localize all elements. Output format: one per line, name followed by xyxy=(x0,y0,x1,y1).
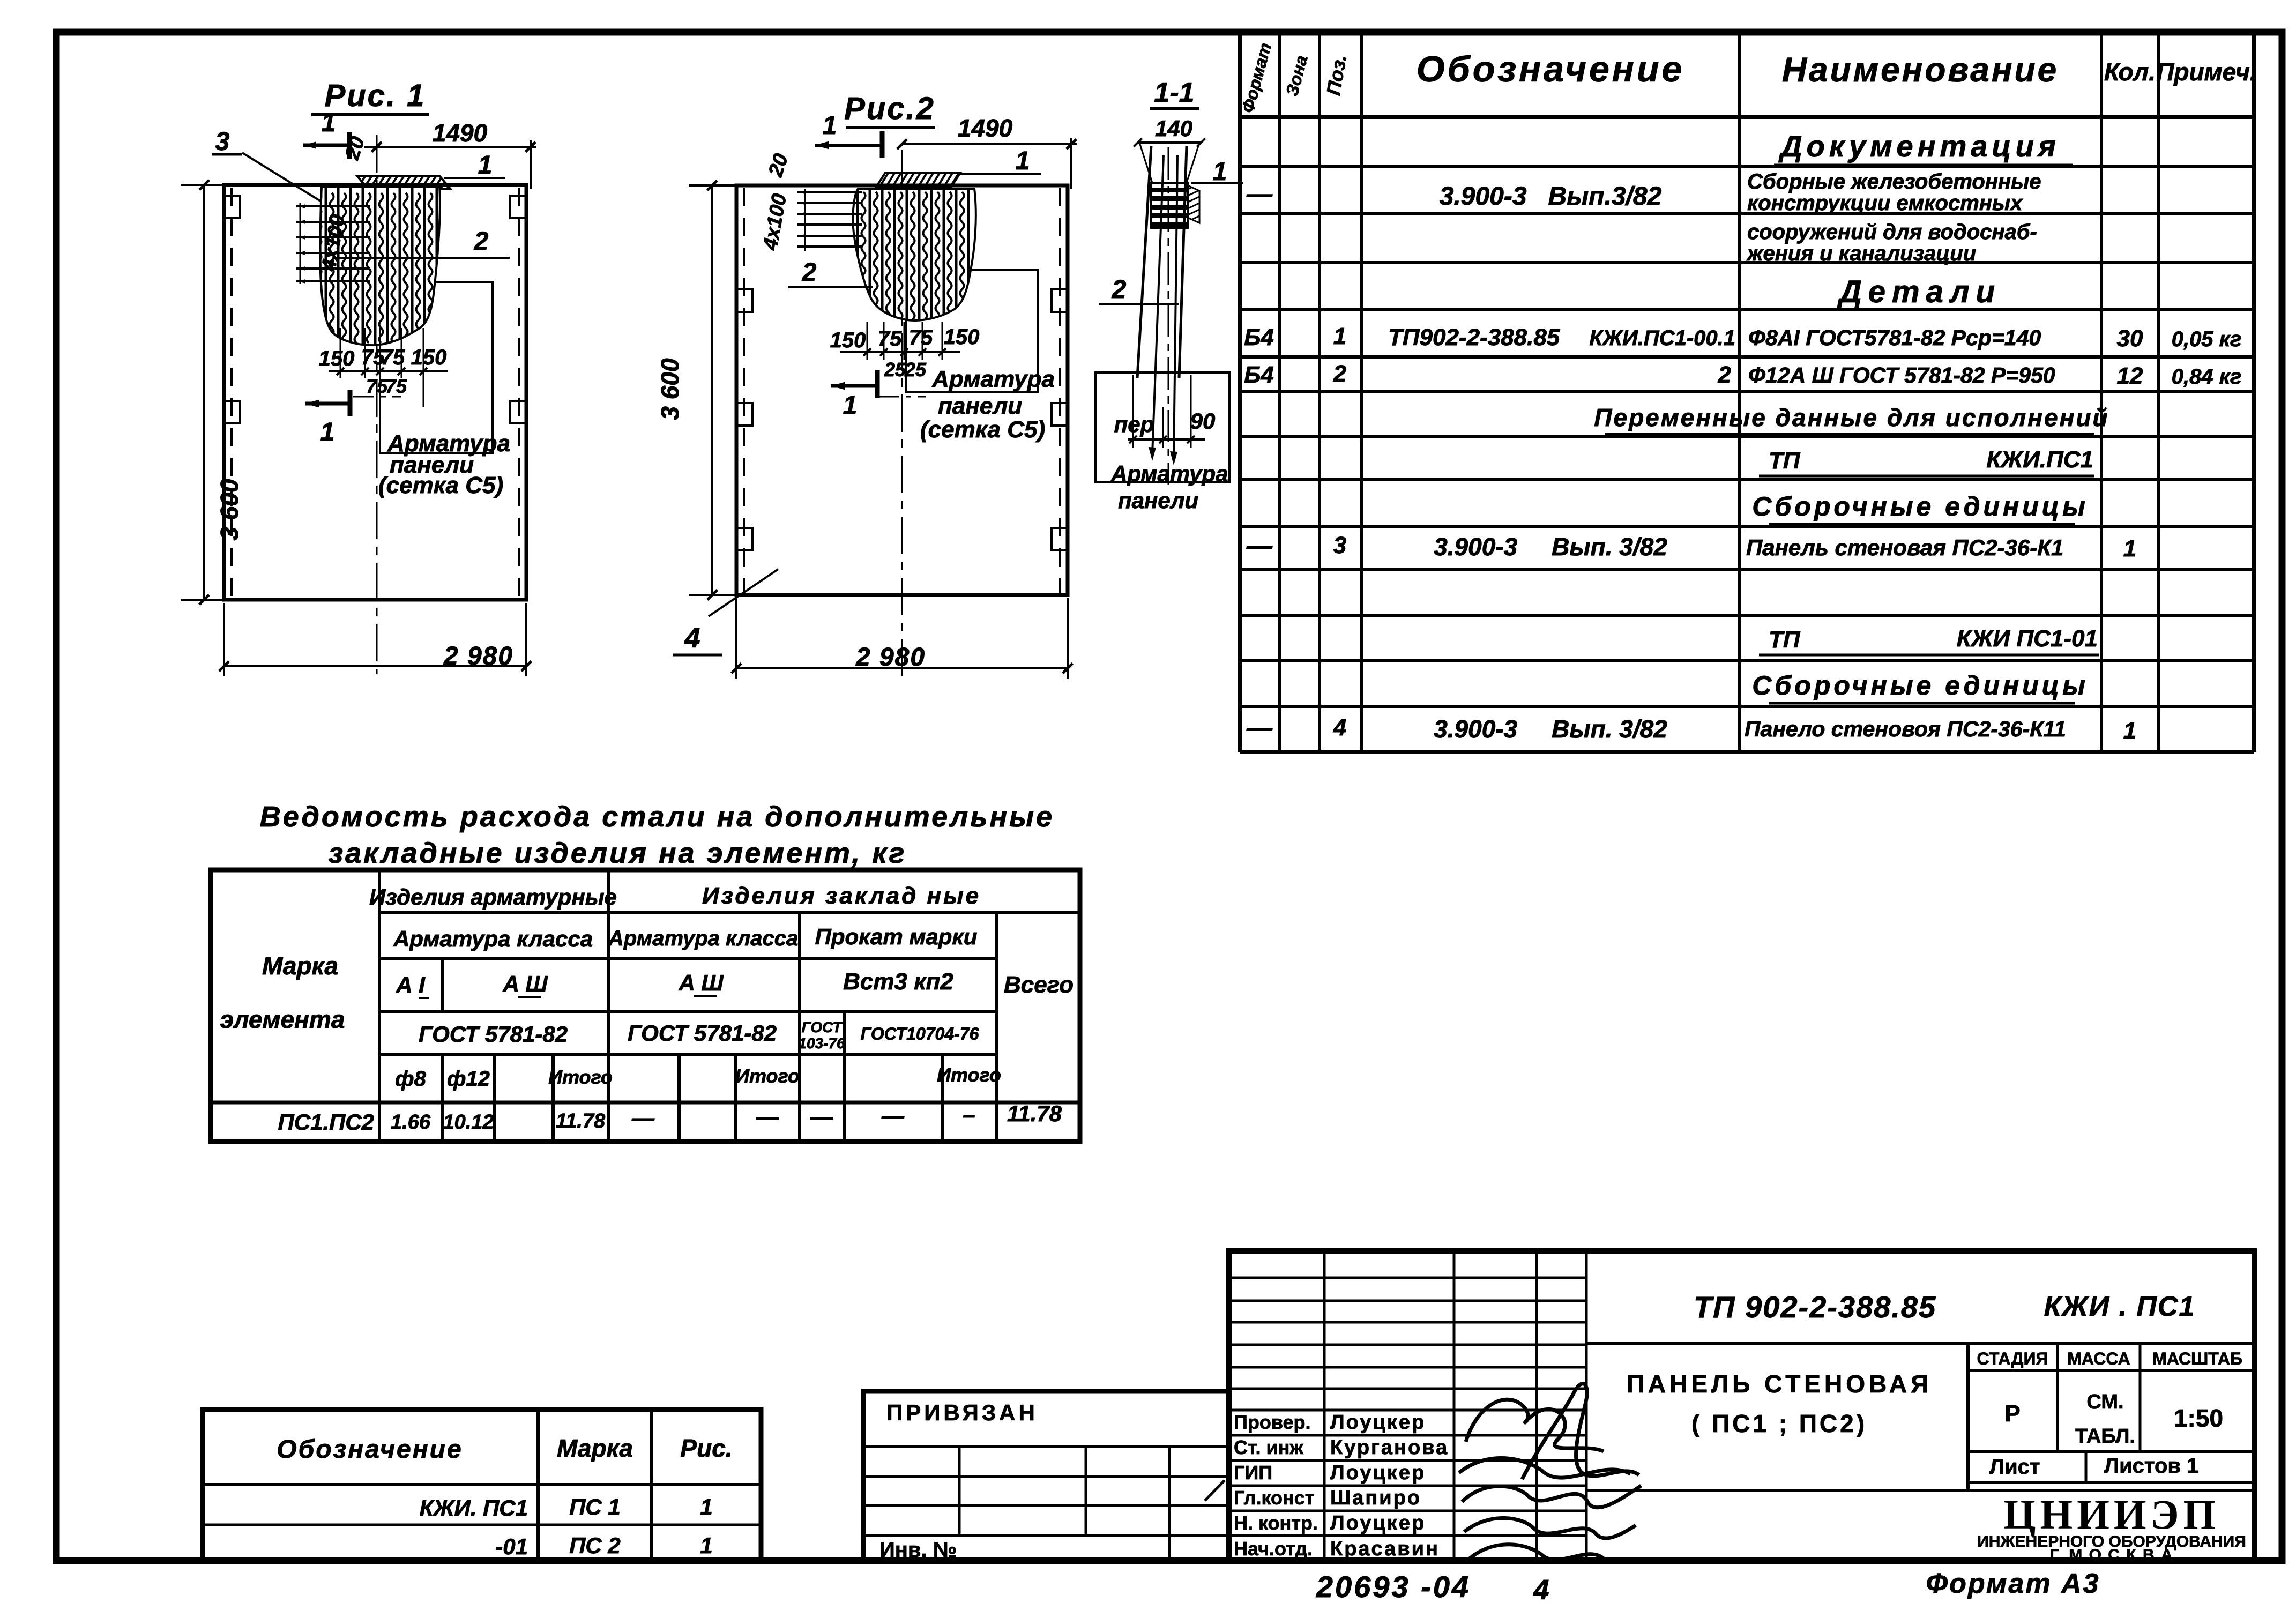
svg-text:Р: Р xyxy=(2004,1400,2020,1427)
svg-text:пер: пер xyxy=(1114,412,1154,437)
svg-text:2 980: 2 980 xyxy=(443,642,513,670)
svg-text:103-76: 103-76 xyxy=(798,1035,845,1052)
svg-text:1: 1 xyxy=(478,151,493,180)
svg-text:–: – xyxy=(963,1102,975,1127)
dim 2980 fig1 xyxy=(224,665,526,667)
svg-text:( ПС1 ; ПС2): ( ПС1 ; ПС2) xyxy=(1691,1410,1867,1437)
svg-text:Обозначение: Обозначение xyxy=(277,1435,463,1464)
svg-text:3 600: 3 600 xyxy=(656,358,684,420)
svg-text:75: 75 xyxy=(385,375,407,397)
svg-text:3.900-3 Вып.3/82: 3.900-3 Вып.3/82 xyxy=(1440,182,1662,211)
hatched band fig1 xyxy=(357,176,450,189)
svg-text:ПС1.ПС2: ПС1.ПС2 xyxy=(278,1109,374,1135)
svg-text:Листов 1: Листов 1 xyxy=(2104,1454,2198,1478)
panel outline fig2 xyxy=(736,185,1068,595)
svg-text:Лист: Лист xyxy=(1989,1455,2040,1479)
svg-text:А I: А I xyxy=(396,972,426,997)
svg-text:1: 1 xyxy=(700,1494,712,1519)
svg-text:Переменные данные для исполнен: Переменные данные для исполнений xyxy=(1594,404,2109,431)
svg-text:2: 2 xyxy=(1718,362,1732,388)
svg-text:11.78: 11.78 xyxy=(556,1110,606,1132)
svg-text:ГОСТ 5781-82: ГОСТ 5781-82 xyxy=(628,1020,777,1046)
svg-text:-01: -01 xyxy=(495,1534,528,1559)
dim 3600 fig1 xyxy=(203,185,205,600)
svg-text:75: 75 xyxy=(381,346,405,369)
dims per/90 section xyxy=(1132,375,1134,448)
svg-text:1490: 1490 xyxy=(433,119,488,147)
svg-text:25: 25 xyxy=(904,359,927,381)
dims 150/75 fig1 xyxy=(329,370,448,372)
svg-text:150: 150 xyxy=(944,325,980,349)
svg-text:1-1: 1-1 xyxy=(1154,77,1194,108)
svg-text:Г. М О С К В А: Г. М О С К В А xyxy=(2049,1546,2173,1564)
svg-text:Арматура: Арматура xyxy=(1110,461,1228,486)
svg-text:140: 140 xyxy=(1155,116,1192,141)
diagonal mark xyxy=(1205,1480,1225,1501)
svg-text:150: 150 xyxy=(411,346,447,369)
svg-text:2: 2 xyxy=(1112,275,1127,304)
svg-text:2: 2 xyxy=(802,258,817,287)
svg-text:10.12: 10.12 xyxy=(443,1111,494,1134)
section body lines xyxy=(1137,146,1151,378)
centerline fig1 xyxy=(376,135,378,674)
svg-text:ПРИВЯЗАН: ПРИВЯЗАН xyxy=(886,1400,1038,1425)
svg-text:ПАНЕЛЬ СТЕНОВАЯ: ПАНЕЛЬ СТЕНОВАЯ xyxy=(1627,1370,1932,1398)
svg-text:1: 1 xyxy=(843,391,858,420)
svg-text:МАСШТАБ: МАСШТАБ xyxy=(2152,1349,2242,1368)
mesh C5 rectangle fig2 xyxy=(906,270,1038,392)
dims 150/75 fig2 xyxy=(840,351,960,353)
svg-text:1: 1 xyxy=(823,111,837,140)
svg-text:СМ.: СМ. xyxy=(2086,1391,2123,1413)
svg-text:ТП 902-2-388.85: ТП 902-2-388.85 xyxy=(1694,1290,1936,1324)
svg-text:3.900-3 Вып. 3/82: 3.900-3 Вып. 3/82 xyxy=(1434,715,1667,743)
svg-text:90: 90 xyxy=(1190,408,1216,434)
svg-text:1: 1 xyxy=(2123,718,2136,744)
svg-text:2: 2 xyxy=(474,227,489,256)
svg-text:Прокат марки: Прокат марки xyxy=(815,924,978,949)
svg-text:ф12: ф12 xyxy=(447,1067,490,1091)
title block xyxy=(1229,1251,2254,1561)
svg-text:20693 -04: 20693 -04 xyxy=(1316,1570,1471,1604)
svg-text:А Ш: А Ш xyxy=(678,970,724,995)
svg-text:Ф8АI ГОСТ5781-82 Рср=140: Ф8АI ГОСТ5781-82 Рср=140 xyxy=(1748,325,2041,350)
svg-text:КЖИ. ПС1: КЖИ. ПС1 xyxy=(420,1495,528,1520)
svg-text:150: 150 xyxy=(830,329,866,352)
svg-text:КЖИ . ПС1: КЖИ . ПС1 xyxy=(2044,1291,2196,1322)
svg-text:А Ш: А Ш xyxy=(502,971,548,996)
svg-text:Марка: Марка xyxy=(262,952,338,980)
centerline fig2 xyxy=(901,150,903,676)
svg-text:Обозначение: Обозначение xyxy=(1417,49,1684,90)
svg-text:жения и канализации: жения и канализации xyxy=(1746,242,1976,265)
svg-text:4: 4 xyxy=(1333,714,1346,741)
svg-text:Б4: Б4 xyxy=(1244,362,1274,388)
svg-text:1.66: 1.66 xyxy=(391,1111,431,1134)
svg-text:ТП: ТП xyxy=(1769,627,1801,653)
svg-text:СТАДИЯ: СТАДИЯ xyxy=(1977,1349,2048,1368)
svg-text:0,05 кг: 0,05 кг xyxy=(2172,327,2242,351)
svg-text:МАССА: МАССА xyxy=(2067,1349,2130,1368)
svg-text:Нач.отд.: Нач.отд. xyxy=(1234,1538,1313,1560)
svg-text:Провер.: Провер. xyxy=(1234,1411,1311,1433)
svg-text:75: 75 xyxy=(909,326,933,349)
svg-text:3.900-3 Вып. 3/82: 3.900-3 Вып. 3/82 xyxy=(1434,533,1667,561)
svg-text:2 980: 2 980 xyxy=(855,643,926,672)
svg-text:Изделия заклад ные: Изделия заклад ные xyxy=(702,883,981,909)
4x100 spacing field fig2 xyxy=(797,191,862,193)
svg-text:3 600: 3 600 xyxy=(215,479,243,541)
panel outline fig1 xyxy=(224,185,526,600)
svg-text:—: — xyxy=(1246,532,1273,560)
svg-text:—: — xyxy=(1246,714,1273,742)
svg-text:Арматура класса: Арматура класса xyxy=(608,927,798,950)
svg-text:11.78: 11.78 xyxy=(1007,1101,1062,1126)
edge notches fig1 xyxy=(224,196,240,218)
svg-text:75: 75 xyxy=(366,375,388,397)
svg-text:(сетка С5): (сетка С5) xyxy=(920,416,1045,443)
svg-text:Гл.конст: Гл.конст xyxy=(1234,1487,1314,1509)
svg-text:ГОСТ 5781-82: ГОСТ 5781-82 xyxy=(419,1022,568,1047)
svg-text:2: 2 xyxy=(1333,361,1347,387)
svg-text:ТП902-2-388.85: ТП902-2-388.85 xyxy=(1388,324,1560,351)
dim 2980 fig2 xyxy=(736,667,1068,669)
svg-text:1: 1 xyxy=(322,109,336,137)
dim 1490 fig1 xyxy=(364,146,536,148)
svg-text:Сборные железобетонные: Сборные железобетонные xyxy=(1747,170,2041,193)
svg-text:Арматура класса: Арматура класса xyxy=(393,926,593,951)
svg-text:ЦНИИЭП: ЦНИИЭП xyxy=(2003,1491,2220,1538)
svg-text:4: 4 xyxy=(684,623,700,654)
privyazan table xyxy=(863,1391,1229,1562)
svg-text:Красавин: Красавин xyxy=(1330,1538,1440,1560)
section mark 1 top fig2 xyxy=(815,144,882,147)
svg-text:Всего: Всего xyxy=(1004,972,1074,998)
svg-text:—: — xyxy=(631,1105,655,1130)
svg-text:Инв. №: Инв. № xyxy=(879,1538,957,1562)
svg-text:0,84 кг: 0,84 кг xyxy=(2172,365,2242,389)
svg-text:Ст. инж: Ст. инж xyxy=(1234,1436,1303,1458)
svg-text:Панело стеновоя ПС2-36-К11: Панело стеновоя ПС2-36-К11 xyxy=(1745,717,2066,741)
svg-text:КЖИ ПС1-01: КЖИ ПС1-01 xyxy=(1957,625,2098,652)
svg-text:1: 1 xyxy=(700,1533,712,1558)
svg-text:конструкции емкостных: конструкции емкостных xyxy=(1747,191,2023,215)
svg-text:панели: панели xyxy=(1118,488,1198,513)
svg-text:Лоуцкер: Лоуцкер xyxy=(1330,1411,1426,1434)
svg-text:закладные изделия на элемент,: закладные изделия на элемент, кг xyxy=(329,837,907,869)
svg-text:Сборочные единицы: Сборочные единицы xyxy=(1752,491,2089,521)
svg-text:—: — xyxy=(756,1104,779,1129)
svg-text:Б4: Б4 xyxy=(1244,324,1274,351)
svg-text:1: 1 xyxy=(2123,535,2136,562)
svg-text:Итого: Итого xyxy=(937,1064,1001,1086)
svg-text:12: 12 xyxy=(2117,363,2143,389)
svg-text:Вст3 кп2: Вст3 кп2 xyxy=(843,968,953,995)
svg-text:Примеч.: Примеч. xyxy=(2156,58,2256,86)
svg-text:Курганова: Курганова xyxy=(1330,1436,1449,1459)
svg-text:ТП: ТП xyxy=(1769,448,1801,474)
svg-text:Формат А3: Формат А3 xyxy=(1926,1568,2100,1599)
reinforcement blob fig2 xyxy=(853,189,975,320)
svg-text:Кол.: Кол. xyxy=(2104,58,2156,86)
signatures xyxy=(1466,1399,1604,1451)
svg-text:150: 150 xyxy=(319,347,355,370)
svg-text:75: 75 xyxy=(878,327,902,351)
svg-text:1:50: 1:50 xyxy=(2174,1404,2223,1432)
mesh C5 rectangle fig1 xyxy=(380,282,493,453)
section head bars xyxy=(1151,183,1188,228)
svg-text:Рис.2: Рис.2 xyxy=(844,91,935,126)
svg-text:КЖИ.ПС1: КЖИ.ПС1 xyxy=(1986,446,2093,473)
svg-text:Ведомость расхода стали на доп: Ведомость расхода стали на дополнительны… xyxy=(260,801,1054,833)
svg-text:ПС 2: ПС 2 xyxy=(569,1533,621,1558)
svg-text:ПС 1: ПС 1 xyxy=(569,1494,621,1519)
svg-text:Шапиро: Шапиро xyxy=(1330,1487,1421,1509)
dim extension lines fig2 xyxy=(867,322,868,360)
reinforcement blob fig1 xyxy=(320,187,440,345)
vedomost table grid xyxy=(211,870,1080,1142)
svg-text:Рис.: Рис. xyxy=(680,1434,732,1462)
svg-text:КЖИ.ПС1-00.1: КЖИ.ПС1-00.1 xyxy=(1589,326,1735,350)
svg-text:ГОСТ10704-76: ГОСТ10704-76 xyxy=(861,1024,979,1043)
edge notches fig2 xyxy=(736,289,752,312)
svg-text:Изделия арматурные: Изделия арматурные xyxy=(369,884,617,910)
svg-text:1490: 1490 xyxy=(958,114,1013,142)
svg-text:ГИП: ГИП xyxy=(1234,1462,1272,1484)
svg-text:25: 25 xyxy=(884,359,906,381)
svg-text:Лоуцкер: Лоуцкер xyxy=(1330,1512,1426,1534)
svg-text:Рис. 1: Рис. 1 xyxy=(325,78,426,113)
svg-text:1: 1 xyxy=(1333,323,1346,349)
svg-text:—: — xyxy=(1246,180,1273,208)
bottom-left designation table xyxy=(203,1410,761,1561)
svg-text:3: 3 xyxy=(215,128,230,156)
dim extension lines fig1 xyxy=(340,328,341,378)
svg-text:элемента: элемента xyxy=(220,1005,345,1033)
svg-text:сооружений для водоснаб-: сооружений для водоснаб- xyxy=(1747,220,2037,244)
svg-text:—: — xyxy=(881,1103,905,1128)
svg-text:Панель стеновая ПС2-36-К1: Панель стеновая ПС2-36-К1 xyxy=(1746,535,2063,560)
svg-text:ТАБЛ.: ТАБЛ. xyxy=(2075,1425,2135,1448)
svg-text:Документация: Документация xyxy=(1778,129,2060,163)
svg-text:1: 1 xyxy=(320,418,335,446)
svg-text:4: 4 xyxy=(1533,1575,1549,1606)
svg-text:Итого: Итого xyxy=(548,1066,613,1088)
svg-text:ф8: ф8 xyxy=(395,1067,426,1091)
svg-text:Сборочные единицы: Сборочные единицы xyxy=(1752,670,2089,700)
section mark 1 bottom fig1 xyxy=(305,402,350,406)
svg-text:Арматура: Арматура xyxy=(931,366,1055,392)
svg-text:—: — xyxy=(810,1104,833,1129)
svg-text:1: 1 xyxy=(1016,147,1030,175)
svg-text:30: 30 xyxy=(2117,325,2143,352)
svg-text:Лоуцкер: Лоуцкер xyxy=(1330,1462,1426,1484)
dim 1490 fig2 xyxy=(902,143,1077,145)
specification table xyxy=(1238,32,1242,752)
svg-text:Н. контр.: Н. контр. xyxy=(1234,1512,1318,1534)
svg-text:Итого: Итого xyxy=(735,1065,800,1087)
label box armatura paneli section xyxy=(1095,372,1229,482)
section mark 1 top fig1 xyxy=(303,144,349,147)
svg-text:3: 3 xyxy=(1333,532,1346,558)
dim 3600 fig2 xyxy=(711,185,713,595)
section mark 1 bottom fig2 xyxy=(831,384,877,388)
svg-text:(сетка С5): (сетка С5) xyxy=(378,472,503,498)
svg-text:Наименование: Наименование xyxy=(1782,50,2059,89)
svg-text:Ф12А Ш ГОСТ 5781-82 Р=950: Ф12А Ш ГОСТ 5781-82 Р=950 xyxy=(1748,363,2055,387)
4x100 spacing field fig1 xyxy=(296,205,370,207)
svg-text:Детали: Детали xyxy=(1837,274,2001,309)
svg-text:Марка: Марка xyxy=(557,1434,633,1462)
svg-text:панели: панели xyxy=(938,393,1022,419)
svg-text:ГОСТ: ГОСТ xyxy=(802,1019,844,1035)
hatched band fig2 xyxy=(876,173,960,188)
